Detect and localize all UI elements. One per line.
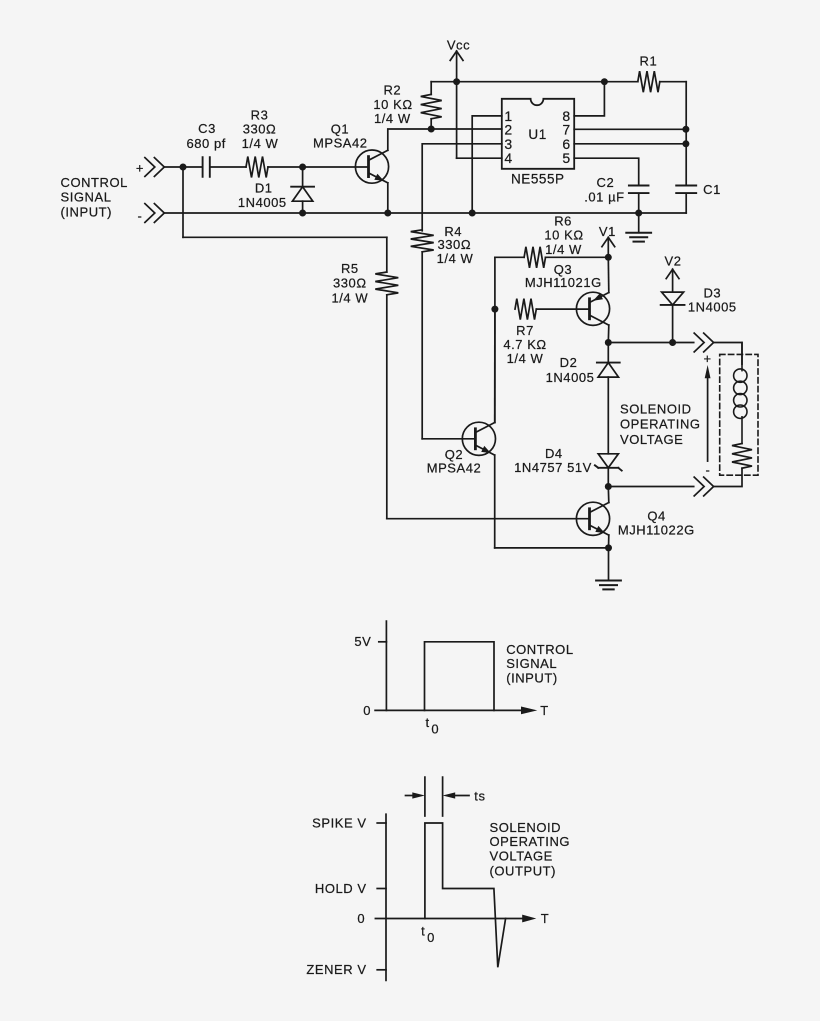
resistor R4 — [411, 230, 434, 252]
wire: chevron to solenoid resistor — [714, 468, 742, 486]
wire: R5 to Q4 base — [387, 518, 590, 520]
transistor Q1 MPSA42 — [355, 150, 388, 183]
node junction dot pin6 — [682, 140, 689, 147]
wire: input junction down — [182, 167, 184, 237]
node junction dot at input + — [180, 164, 187, 171]
node: output - terminal chevrons — [704, 477, 714, 496]
svg-text:t: t — [426, 715, 430, 730]
diode D2 1N4005 — [607, 343, 609, 363]
svg-text:1/4 W: 1/4 W — [507, 351, 544, 366]
wire: pin 7 to C1 branch — [574, 128, 686, 130]
node: output + terminal chevrons — [704, 333, 714, 352]
resistor R5 — [386, 237, 388, 272]
wave2 SPIKE V tick — [377, 822, 386, 824]
svg-text:-: - — [138, 209, 143, 224]
svg-text:V1: V1 — [599, 224, 616, 239]
svg-text:0: 0 — [431, 721, 439, 736]
wire: minus input rail — [164, 212, 686, 214]
svg-text:+: + — [136, 160, 144, 175]
capacitor C3 — [202, 157, 204, 177]
wire: bottom output line — [608, 486, 693, 488]
wire: Q4 collector up to output — [607, 487, 610, 503]
wire: C3 to R3 — [211, 166, 246, 168]
svg-text:R7: R7 — [516, 323, 534, 338]
wave2 ts right arrow — [454, 795, 469, 797]
svg-text:0: 0 — [427, 930, 435, 945]
svg-text:Q1: Q1 — [331, 121, 349, 136]
wire: R4 to Q2 base — [422, 438, 475, 440]
svg-text:330Ω: 330Ω — [437, 237, 471, 252]
resistor R7 — [515, 299, 536, 320]
wire: + input to C3 — [164, 166, 202, 168]
resistor R2 — [430, 119, 432, 129]
svg-text:4: 4 — [504, 150, 512, 166]
svg-text:10 KΩ: 10 KΩ — [544, 228, 583, 243]
wire: R6/R7 left rail down to Q2 collector — [494, 257, 496, 422]
svg-text:1/4 W: 1/4 W — [437, 251, 474, 266]
node junction dot C2 to minus rail — [635, 210, 642, 217]
svg-text:T: T — [540, 703, 549, 718]
wire: pin 3 from U1 down to R4 — [422, 144, 502, 231]
wave1 x axis with arrow — [375, 709, 523, 711]
svg-text:MPSA42: MPSA42 — [427, 460, 482, 475]
wire: Q1 emitter down — [387, 183, 389, 213]
svg-text:1/4 W: 1/4 W — [331, 290, 368, 305]
svg-text:Vcc: Vcc — [447, 38, 470, 53]
node junction dot Vcc at pin8 riser — [601, 78, 608, 85]
svg-text:OPERATING: OPERATING — [490, 834, 571, 849]
node junction dot Q1 emitter to minus rail — [384, 210, 391, 217]
svg-text:T: T — [541, 911, 550, 926]
node junction dot Q4 emitter — [605, 544, 612, 551]
svg-text:0: 0 — [363, 703, 371, 718]
svg-text:D2: D2 — [560, 355, 578, 370]
svg-text:C1: C1 — [703, 182, 721, 197]
wire: pin 6 to C1 branch — [574, 143, 686, 145]
wave1 pulse — [425, 642, 495, 711]
svg-text:R6: R6 — [554, 214, 572, 229]
svg-text:OPERATING: OPERATING — [620, 417, 701, 432]
resistor R6 — [495, 256, 524, 258]
transistor Q4 MJH11022G — [576, 502, 609, 535]
node junction dot pin1 to minus rail — [469, 210, 476, 217]
IC U1 NE555P timer — [502, 99, 574, 169]
wave2 ZENER V tick — [377, 969, 386, 971]
svg-text:330Ω: 330Ω — [333, 276, 367, 291]
svg-text:R5: R5 — [341, 261, 359, 276]
wire: R3 to Q1 base — [268, 166, 369, 168]
svg-text:ZENER V: ZENER V — [306, 962, 366, 977]
node: solenoid dashed enclosure — [720, 354, 758, 475]
svg-text:C2: C2 — [597, 175, 615, 190]
svg-text:D1: D1 — [255, 181, 273, 196]
node V2 supply arrow — [672, 269, 674, 292]
capacitor C1 — [676, 185, 696, 187]
wave2 y axis — [385, 814, 387, 980]
wire: Q1 collector up to R2 junction — [388, 129, 431, 150]
wire: pin 4 to U1 — [457, 157, 502, 159]
resistor R3 — [246, 157, 268, 178]
power Vcc symbol — [456, 51, 458, 158]
svg-text:1/4 W: 1/4 W — [242, 136, 279, 151]
svg-text:SPIKE V: SPIKE V — [312, 815, 366, 830]
svg-text:CONTROL: CONTROL — [506, 642, 573, 657]
wire: pin 5 to C2 — [574, 158, 639, 185]
resistor R1 — [638, 71, 660, 92]
svg-text:680 pf: 680 pf — [186, 136, 225, 151]
svg-text:1N4757 51V: 1N4757 51V — [514, 460, 592, 475]
wire: Q2 collector up (part of left rail) — [494, 309, 496, 422]
node junction dot Vcc at pin4 riser — [453, 78, 460, 85]
svg-text:D3: D3 — [703, 285, 721, 300]
svg-text:NE555P: NE555P — [511, 172, 565, 187]
node: solenoid voltage arrow — [707, 378, 709, 462]
svg-text:R1: R1 — [640, 53, 658, 68]
svg-text:(INPUT): (INPUT) — [61, 204, 113, 219]
wire: chevron to solenoid coil — [714, 343, 742, 365]
svg-text:MJH11021G: MJH11021G — [525, 275, 602, 290]
wire: R1 right corner down to C1 branch — [660, 81, 686, 83]
svg-text:VOLTAGE: VOLTAGE — [490, 848, 553, 863]
wire: Q3 emitter up to V1 — [607, 257, 610, 292]
svg-text:HOLD V: HOLD V — [315, 881, 367, 896]
wire: Q2 emitter down to ground run — [494, 455, 496, 548]
wire: Vcc rail — [431, 81, 638, 83]
wire: pin2 line R2 junction to U1 — [431, 128, 502, 130]
wave2 HOLD V tick — [377, 888, 386, 890]
wire: pin 1 from U1 down to minus rail — [472, 116, 502, 213]
wire: across to R5 top — [183, 236, 387, 238]
svg-text:CONTROL: CONTROL — [61, 175, 128, 190]
wave2 waveform — [425, 823, 506, 967]
svg-text:.01 µF: .01 µF — [584, 190, 624, 205]
diode D3 1N4005 — [662, 292, 684, 305]
svg-text:5V: 5V — [354, 634, 371, 649]
diode D1 1N4005 — [302, 167, 304, 187]
svg-text:Q4: Q4 — [647, 508, 665, 523]
ground under C2 — [638, 213, 640, 233]
svg-text:SIGNAL: SIGNAL — [61, 190, 112, 205]
svg-text:U1: U1 — [528, 127, 546, 142]
node junction dot R7 tap — [491, 306, 498, 313]
svg-text:MPSA42: MPSA42 — [313, 136, 368, 151]
svg-text:ts: ts — [474, 788, 485, 803]
ground below Q4 — [608, 548, 610, 581]
node junction dot pin7 — [682, 126, 689, 133]
wire: pin 8 to Vcc rail — [574, 82, 604, 116]
svg-text:(INPUT): (INPUT) — [506, 670, 558, 685]
svg-text:-: - — [706, 463, 711, 478]
svg-text:MJH11022G: MJH11022G — [618, 523, 695, 538]
node junction dot R2 bottom / pin 2 / Q1 collector — [428, 126, 435, 133]
wire: Q3 collector down — [607, 325, 610, 342]
svg-text:D4: D4 — [545, 446, 563, 461]
svg-text:1/4 W: 1/4 W — [545, 242, 582, 257]
node junction dot D1 to minus rail — [299, 210, 306, 217]
svg-text:SOLENOID: SOLENOID — [620, 401, 692, 416]
node junction dot Q3 collector output — [605, 339, 612, 346]
wire: emitter ground run to Q4 emitter — [495, 547, 609, 549]
node junction dot V1 / R6 / Q3 emitter — [605, 254, 612, 261]
node junction dot D4 to bottom output — [605, 483, 612, 490]
resistor solenoid internal — [732, 444, 752, 469]
svg-text:5: 5 — [562, 150, 570, 166]
svg-text:1N4005: 1N4005 — [546, 370, 595, 385]
svg-text:R2: R2 — [383, 83, 401, 98]
transistor Q3 MJH11021G (PNP) — [576, 292, 609, 325]
svg-text:VOLTAGE: VOLTAGE — [620, 432, 683, 447]
node junction dot at D1 anode top — [299, 164, 306, 171]
svg-text:1N4005: 1N4005 — [688, 300, 737, 315]
svg-text:4.7 KΩ: 4.7 KΩ — [503, 337, 546, 352]
wave2 ts right tick — [442, 777, 444, 816]
wave1 y axis — [385, 621, 387, 710]
wire: top output line — [608, 342, 693, 344]
node V1 supply arrow — [607, 237, 609, 257]
wave2 ts left tick — [424, 777, 426, 816]
svg-text:(OUTPUT): (OUTPUT) — [490, 863, 557, 878]
transistor Q2 MPSA42 — [462, 422, 495, 455]
svg-text:V2: V2 — [664, 253, 681, 268]
wave1 5V tick — [379, 641, 387, 643]
wave2 ts left arrow — [406, 795, 414, 797]
svg-text:1N4005: 1N4005 — [238, 195, 287, 210]
wave2 x axis with arrow — [375, 918, 523, 920]
capacitor C2 .01uF — [629, 185, 649, 187]
wire: Q4 emitter down — [608, 535, 610, 548]
node junction dot D3 connection — [669, 339, 676, 346]
svg-text:0: 0 — [357, 911, 365, 926]
diode D4 zener 1N4757 — [598, 454, 618, 468]
svg-text:C3: C3 — [198, 121, 216, 136]
svg-text:SOLENOID: SOLENOID — [490, 820, 562, 835]
inductor solenoid coil — [741, 343, 743, 371]
svg-text:+: + — [704, 351, 712, 366]
svg-text:330Ω: 330Ω — [243, 121, 277, 136]
svg-text:SIGNAL: SIGNAL — [506, 656, 557, 671]
svg-text:1/4 W: 1/4 W — [374, 111, 411, 126]
svg-text:t: t — [421, 924, 425, 939]
